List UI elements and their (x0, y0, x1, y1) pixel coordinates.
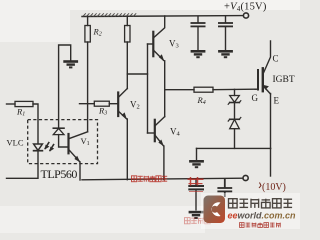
wire ground stem top-left (59, 45, 71, 128)
ground under C3 (189, 211, 204, 219)
capacitor C2 lead (225, 16, 227, 23)
ground G3 (189, 160, 204, 168)
IGBT channel bar (262, 68, 264, 91)
rail hatching (83, 14, 136, 17)
resistor R2b lead top (126, 17, 128, 26)
left input return wire (7, 151, 39, 179)
watermark text line 1 (229, 199, 238, 208)
ground G3 stem (196, 148, 198, 160)
transistor V2 collector (118, 89, 127, 98)
resistor R2b body (125, 26, 130, 43)
svg-text:+V4(15V): +V4(15V) (224, 1, 267, 13)
IGBT emitter (263, 86, 271, 95)
transistor V4 collector (155, 117, 165, 126)
zener D1 (230, 96, 240, 103)
resistor R3 body (94, 101, 109, 106)
faint red watermark bottom (185, 218, 191, 224)
tick before (10V) (259, 183, 261, 189)
ground symbol top-left (63, 60, 78, 68)
resistor R4 body (194, 87, 213, 92)
zener D1-D2 lead (234, 103, 236, 120)
LED bar (34, 150, 43, 152)
capacitor C3 (188, 179, 204, 210)
diode D0 (in box) (53, 127, 64, 129)
ground under C2 (218, 50, 233, 58)
svg-text:TLP560: TLP560 (41, 167, 78, 181)
resistor R2 body (85, 26, 90, 43)
transistor V4 base bar (154, 120, 156, 141)
wire R2b bottom to V2 collector (126, 42, 128, 89)
svg-text:eeworld.com.cn: eeworld.com.cn (228, 211, 297, 221)
LED triangle (34, 144, 43, 150)
transistor V1 emitter (69, 149, 80, 161)
capacitor C1 lead bottom (197, 26, 199, 50)
wire V4 emitter down (163, 146, 165, 180)
wire V3 emitter / V4 collector vertical (164, 61, 166, 117)
resistor R2 lead top (87, 17, 89, 26)
capacitor C1 plates (191, 22, 204, 24)
driver base vertical (147, 44, 149, 133)
capacitor C2 plates (219, 22, 232, 24)
dashed optocoupler box TLP560 (28, 120, 98, 164)
wire R1 left lead (7, 103, 16, 105)
wire R4 to gate (213, 88, 258, 91)
transistor V1 base bar (67, 134, 69, 153)
IGBT emitter arrowhead (263, 85, 269, 90)
light arrow 2 (50, 145, 54, 151)
ground under C1 (191, 50, 206, 58)
eeworld logo (204, 196, 226, 224)
V1 emitter lead down (79, 162, 81, 180)
bottom rail (82, 178, 243, 180)
resistor R1 body (15, 101, 33, 106)
light arrow 1 (45, 143, 49, 149)
wire R2 bottom to V1 collector (87, 42, 89, 132)
V3 emitter arrowhead (159, 54, 165, 61)
svg-text:VLC: VLC (7, 138, 24, 148)
wire to V3 base (148, 43, 154, 45)
transistor V3 collector (153, 16, 164, 38)
V4 emitter arrowhead (158, 140, 164, 147)
top supply rail (82, 15, 243, 18)
wire to V4 base (148, 132, 155, 134)
watermark banner background (201, 193, 300, 229)
wire V2 emitter down (126, 119, 128, 180)
IGBT collector (263, 41, 271, 75)
wire R1 to LED anode (33, 104, 38, 144)
svg-text:C: C (273, 54, 279, 64)
capacitor C4 (217, 178, 232, 197)
transistor V1 collector (69, 132, 88, 139)
svg-text:G: G (252, 93, 259, 103)
IGBT emitter lead down (270, 94, 272, 177)
+V terminal (243, 13, 248, 18)
svg-text:E: E (274, 96, 280, 106)
zener D1 lead (234, 89, 236, 95)
transistor V3 emitter (153, 50, 163, 60)
wire node to driver verticals (127, 73, 147, 75)
diode D0 lead to base (59, 135, 69, 147)
bottom terminal (243, 175, 248, 180)
wire R3 left lead (80, 103, 95, 105)
transistor V2 emitter (118, 111, 126, 119)
transistor V4 emitter (155, 135, 164, 146)
red watermark glyph over C3 (188, 177, 204, 192)
capacitor C1 lead (197, 16, 199, 23)
svg-text:(10V): (10V) (262, 182, 286, 193)
emitter return line (197, 147, 271, 149)
watermark text line 3 (240, 223, 245, 228)
svg-text:IGBT: IGBT (273, 75, 295, 85)
transistor V2 base bar (117, 93, 119, 117)
light arrowheads (45, 145, 50, 150)
V2 emitter arrowhead (122, 112, 127, 119)
V1 emitter arrowhead (74, 156, 80, 163)
red watermark text on rail (132, 176, 137, 182)
zener D2 (230, 118, 240, 120)
zener D2 lead down (234, 129, 236, 149)
wire output node to R4 (165, 89, 194, 91)
wire R3 to V2 base (109, 103, 118, 105)
transistor V3 base bar (152, 32, 154, 56)
IGBT gate bar (257, 70, 259, 90)
capacitor C2 lead bottom (225, 26, 227, 50)
